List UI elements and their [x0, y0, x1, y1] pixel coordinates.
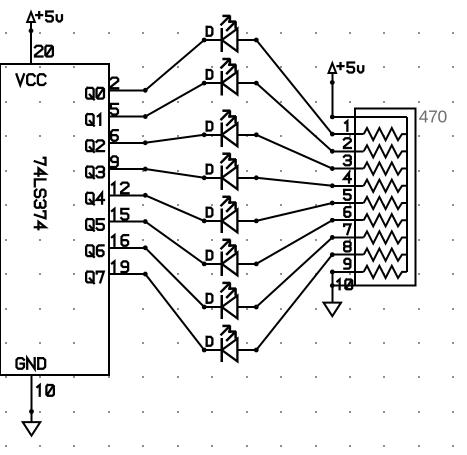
svg-text:470: 470 [419, 107, 448, 127]
